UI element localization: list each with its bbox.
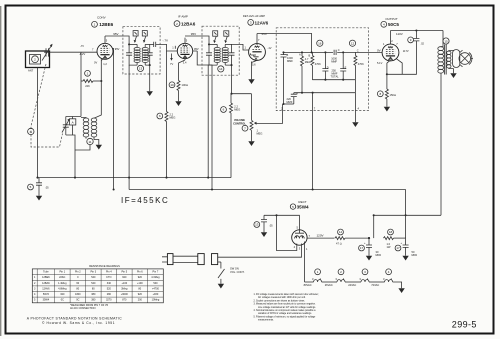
filter cap 17A 30MFD	[359, 237, 382, 260]
tube V2 12BA6	[176, 38, 197, 60]
interlock plug	[162, 254, 221, 265]
svg-text:380: 380	[91, 293, 96, 296]
svg-text:AC-DC CONNECTION: AC-DC CONNECTION	[70, 307, 96, 310]
svg-text:VOL. CONT.: VOL. CONT.	[230, 270, 245, 274]
T1 ref circle 13	[137, 65, 143, 71]
svg-text:Pin 5: Pin 5	[121, 271, 127, 274]
svg-text:12AV6: 12AV6	[42, 287, 50, 290]
V1 labels	[79, 32, 120, 66]
svg-text:Pin 2: Pin 2	[75, 271, 81, 274]
svg-text:95V: 95V	[113, 32, 118, 36]
T1 trimmer A2	[142, 31, 147, 43]
svg-text:MEG: MEG	[170, 115, 176, 119]
tube V5 35W4 rectifier	[292, 226, 311, 252]
V5 cathode output 120V	[307, 234, 335, 239]
board outline	[276, 28, 368, 111]
svg-text:3270: 3270	[106, 299, 112, 302]
svg-text:1W: 1W	[387, 245, 391, 249]
wire gang to V1 grid	[48, 51, 97, 53]
resistor A 4.7MEG	[299, 51, 311, 92]
on-off switch	[218, 262, 245, 289]
T1 primary bottom to B+ drop	[128, 65, 130, 189]
svg-text:Pin 1: Pin 1	[59, 271, 65, 274]
label V2 IF AMP 12BA6	[174, 14, 196, 26]
svg-text:B: B	[309, 53, 311, 57]
svg-text:55V: 55V	[262, 32, 267, 36]
T2 can outline	[202, 26, 239, 75]
capacitor B 1000MMF	[281, 51, 294, 104]
svg-text:MMF: MMF	[331, 60, 337, 64]
T2 primary coil	[214, 44, 220, 65]
wire board AF rail to V4 grid	[355, 51, 382, 53]
svg-text:-8.2V: -8.2V	[79, 52, 85, 56]
svg-text:26VAC: 26VAC	[325, 283, 333, 287]
svg-text:measurements.: measurements.	[258, 319, 274, 322]
T2 primary bottom to screen/B+ drop	[207, 65, 210, 178]
svg-text:.05: .05	[269, 224, 273, 228]
svg-text:100Ω: 100Ω	[182, 83, 188, 87]
svg-text:Pin 4: Pin 4	[106, 271, 112, 274]
svg-text:12BA6: 12BA6	[42, 282, 50, 285]
svg-text:299-5: 299-5	[452, 319, 477, 329]
svg-text:1,2: 1,2	[103, 62, 107, 66]
svg-text:18: 18	[389, 230, 393, 234]
T2 trimmer A2	[224, 31, 229, 43]
svg-text:540: 540	[91, 276, 96, 279]
capacitor C 1000MMF (series)	[331, 48, 340, 64]
svg-text:Pin 3: Pin 3	[90, 271, 96, 274]
grid return / AVC resistor R6	[157, 51, 176, 178]
svg-text:150Ω: 150Ω	[390, 93, 396, 97]
svg-text:12BE6: 12BE6	[99, 22, 113, 27]
V3 pin digits	[245, 38, 261, 50]
V3 plate wire into board	[257, 34, 312, 53]
wire antenna bottom down to AVC bus	[37, 68, 39, 178]
table grid	[32, 269, 163, 303]
svg-text:120V: 120V	[317, 234, 324, 238]
svg-text:+930: +930	[153, 293, 159, 296]
speaker ground	[450, 69, 456, 79]
svg-text:4. Nominal tolerance on compo: 4. Nominal tolerance on component values…	[254, 309, 317, 312]
wire antenna to tuning cap	[44, 51, 50, 53]
svg-text:12: 12	[351, 42, 355, 46]
T2 secondary bottom to volume chain	[230, 64, 251, 94]
filter cap 17B 50MFD	[395, 238, 417, 260]
svg-text:CONTROL: CONTROL	[233, 121, 246, 125]
svg-text:Pin 6: Pin 6	[137, 271, 143, 274]
T2 secondary cap	[225, 44, 234, 65]
svg-text:IF=455KC: IF=455KC	[121, 196, 169, 205]
T1 can outline	[123, 27, 160, 74]
svg-text:TOTAL: TOTAL	[331, 75, 340, 79]
svg-text:0V: 0V	[94, 61, 97, 65]
svg-text:470K: 470K	[315, 62, 321, 66]
svg-text:IF AMP: IF AMP	[178, 14, 188, 18]
svg-text:520: 520	[107, 287, 112, 290]
svg-text:DET-AVC-AF AMP: DET-AVC-AF AMP	[243, 14, 265, 18]
svg-text:RESISTANCE READINGS: RESISTANCE READINGS	[89, 264, 120, 268]
svg-text:10Meg: 10Meg	[152, 299, 160, 302]
volume pot ground	[248, 138, 254, 146]
svg-text:5.1V: 5.1V	[377, 61, 383, 65]
svg-text:117V: 117V	[403, 49, 409, 53]
capacitor E	[340, 51, 346, 79]
svg-text:22KΩ: 22KΩ	[59, 276, 65, 279]
tuning gang capacitor C1A	[42, 44, 53, 61]
V2 plate wire to T2	[185, 36, 209, 44]
scan edge left	[0, 6, 1, 336]
photofact credit	[27, 317, 122, 325]
svg-text:7V: 7V	[170, 62, 173, 66]
output transformer T3	[438, 31, 454, 216]
T2 secondary coil	[222, 44, 228, 65]
T2 secondary top to V3 diode	[232, 44, 249, 50]
svg-text:variation of ±15% in voltage a: variation of ±15% in voltage and resista…	[258, 312, 312, 315]
heater V1	[314, 280, 322, 282]
svg-text:MFD: MFD	[412, 253, 418, 257]
heater ref circles	[315, 269, 392, 275]
label V3 DET-AVC-AF AMP 12AV6	[243, 14, 269, 25]
board pin numbers	[281, 106, 360, 110]
T1 secondary cap	[145, 44, 153, 65]
svg-text:MFD: MFD	[376, 253, 382, 257]
svg-text:1. DC voltage measurements ta: 1. DC voltage measurements taken with va…	[254, 293, 320, 296]
svg-text:+4700: +4700	[152, 287, 160, 290]
wire cathode drop x=101.3	[95, 59, 103, 118]
T1 primary cap	[126, 43, 137, 65]
osc trimmer rails	[66, 117, 81, 178]
label V1 CONV 12BE6	[92, 15, 114, 27]
svg-text:-7V: -7V	[80, 44, 84, 48]
osc padder ref box A	[70, 117, 76, 136]
svg-text:5,6: 5,6	[252, 63, 256, 67]
svg-text:+9000: +9000	[121, 293, 129, 296]
label V4 OUTPUT 50C5	[381, 17, 400, 27]
heater V3	[361, 280, 369, 282]
heater voltage labels	[304, 283, 380, 287]
svg-text:CONV: CONV	[97, 15, 106, 19]
svg-text:+100: +100	[137, 282, 143, 285]
svg-text:E: E	[345, 65, 347, 69]
svg-text:0C: 0C	[61, 299, 64, 302]
resistor R14 47 ohm surge	[335, 229, 369, 246]
T1 trimmer A1	[133, 31, 138, 43]
svg-text:3Meg: 3Meg	[121, 287, 128, 290]
svg-text:95V: 95V	[115, 47, 120, 51]
B+ takeoff wires	[368, 190, 441, 240]
resistor R1 22K	[81, 70, 101, 88]
V2 cathode resistor R10 100 ohm	[169, 60, 188, 106]
oscillator coil L2	[81, 118, 99, 142]
T1 primary coil	[134, 44, 140, 65]
svg-text:280: 280	[107, 293, 112, 296]
svg-text:Tube: Tube	[43, 271, 49, 274]
float ref circle 12	[349, 40, 355, 46]
svg-text:200: 200	[138, 299, 143, 302]
svg-text:© Howard W. Sams & Co., Inc. 1: © Howard W. Sams & Co., Inc. 1951	[42, 321, 115, 325]
svg-text:4.8Meg: 4.8Meg	[58, 287, 67, 290]
heater pin marks	[312, 277, 393, 281]
plate wire V1 to T1	[105, 36, 129, 44]
svg-text:D: D	[327, 65, 329, 69]
heater V2	[337, 280, 345, 282]
grid test point symbol	[170, 54, 173, 67]
resistor C 470K	[354, 48, 364, 79]
V4 pin digits	[383, 39, 398, 46]
svg-text:+100: +100	[121, 282, 127, 285]
AVC resistor chain x=230	[221, 93, 241, 178]
filter resistor R18 1.0K	[384, 229, 406, 249]
svg-text:3. Measured values are from s: 3. Measured values are from socket pin t…	[254, 303, 317, 306]
T2 primary cap	[206, 43, 217, 65]
svg-text:.02: .02	[420, 42, 424, 46]
svg-text:MMF: MMF	[287, 59, 293, 63]
svg-text:540: 540	[91, 282, 96, 285]
speaker	[453, 50, 473, 68]
svg-text:AC voltages measured with 1000: AC voltages measured with 1000 ohm per v…	[258, 296, 306, 299]
svg-text:72VAC: 72VAC	[371, 283, 379, 287]
V2 screen wire to B+	[197, 51, 212, 190]
T2 trimmer A1	[213, 31, 218, 43]
svg-text:Line voltage maintained at 117: Line voltage maintained at 117 volts for…	[258, 306, 316, 309]
svg-text:16: 16	[318, 42, 322, 46]
svg-text:12BA6: 12BA6	[181, 21, 196, 26]
tube V3 12AV6	[249, 34, 266, 67]
svg-text:15: 15	[444, 39, 448, 43]
volume control label	[233, 118, 246, 125]
V2 labels	[183, 32, 199, 64]
V1 screen wire to B+ bus	[113, 49, 115, 191]
ground stub below board pin 4	[352, 111, 358, 127]
V4 cathode resistor R8 150 ohm	[377, 63, 395, 112]
svg-text:95V: 95V	[191, 32, 196, 36]
float ref circle 16	[317, 40, 323, 46]
AVC bypass cap C5 .05	[28, 178, 50, 201]
svg-text:95V: 95V	[194, 47, 199, 51]
svg-text:-.7V: -.7V	[163, 39, 169, 43]
svg-text:17: 17	[360, 246, 364, 250]
svg-text:12AV6: 12AV6	[255, 20, 269, 25]
svg-text:OUTPUT: OUTPUT	[385, 17, 398, 21]
board AF rail	[284, 51, 356, 53]
board bottom rail	[312, 79, 355, 93]
svg-text:17: 17	[396, 246, 400, 250]
filament ground	[398, 285, 404, 293]
V2 pin digits	[172, 39, 188, 50]
wire pot tap up to board pin 2	[282, 104, 284, 124]
svg-text:50C5: 50C5	[388, 22, 399, 27]
tube V1 12BE6	[97, 36, 113, 61]
board B+ feed down	[312, 93, 314, 190]
capacitor 9 .02 plate-cathode	[387, 29, 425, 74]
wire grid bus drop left x=81	[80, 52, 82, 116]
svg-text:Pin 7: Pin 7	[153, 271, 159, 274]
svg-text:2. Socket connections are sho: 2. Socket connections are shown as botto…	[254, 299, 306, 302]
svg-text:MEG: MEG	[234, 108, 240, 112]
dashed gang line	[31, 64, 63, 147]
svg-text:RECT: RECT	[298, 200, 306, 204]
svg-text:5. Filament voltage of minimu: 5. Filament voltage of minimum, no signa…	[254, 315, 317, 318]
svg-text:540: 540	[153, 282, 158, 285]
svg-text:-1V: -1V	[268, 46, 272, 50]
svg-text:340: 340	[107, 282, 112, 285]
svg-text:920: 920	[138, 276, 143, 279]
svg-text:C: C	[338, 48, 340, 52]
B+ bus	[129, 188, 406, 190]
oscillator trimmer C1B	[62, 117, 70, 136]
svg-text:80VAC: 80VAC	[304, 283, 312, 287]
svg-text:MEG: MEG	[257, 131, 263, 135]
capacitor D .05	[322, 51, 339, 79]
svg-text:A: A	[72, 121, 74, 125]
table text	[34, 271, 160, 302]
T1 secondary bottom to ground	[147, 64, 153, 96]
svg-text:22K: 22K	[85, 84, 90, 88]
label V5 RECT 35W4	[290, 200, 309, 210]
V5 heater pin to filament string	[304, 242, 306, 283]
svg-text:110V: 110V	[396, 32, 403, 36]
svg-text:4.3Meg: 4.3Meg	[151, 276, 160, 279]
svg-text:470K: 470K	[358, 62, 364, 66]
svg-text:10: 10	[170, 83, 174, 87]
svg-text:12BE6: 12BE6	[42, 276, 50, 279]
V4 plate wire up and right to OT	[391, 30, 444, 32]
svg-text:47 Ω: 47 Ω	[336, 242, 342, 246]
T2 ref circle 14	[218, 66, 224, 72]
resistor B 470K	[309, 52, 322, 79]
board common rail	[294, 92, 356, 111]
svg-text:C: C	[357, 48, 359, 52]
svg-text:A: A	[299, 53, 301, 57]
svg-text:A: A	[296, 92, 298, 96]
svg-text:920: 920	[122, 276, 127, 279]
svg-text:MEG: MEG	[305, 60, 311, 64]
wire cap A / cap B to pin 2	[283, 103, 294, 105]
svg-text:320: 320	[60, 293, 65, 296]
svg-text:ANT: ANT	[28, 69, 34, 73]
capacitor A 220MMF	[287, 92, 299, 105]
volume control pot R7	[242, 94, 283, 138]
ground under osc coil	[96, 142, 102, 150]
wire osc section to AVC bus	[75, 137, 90, 150]
svg-text:380: 380	[91, 299, 96, 302]
OT ref circle 15	[443, 38, 449, 44]
line bypass cap 13 .05	[254, 215, 273, 237]
grid coupling cap T1 to V2	[150, 42, 176, 51]
svg-text:13: 13	[255, 223, 259, 227]
svg-text:0C: 0C	[76, 299, 79, 302]
V5 plate feed from line	[264, 215, 299, 230]
svg-text:50C5: 50C5	[43, 293, 50, 296]
osc coil ref circle 11	[87, 138, 93, 144]
svg-text:35W4: 35W4	[297, 205, 309, 210]
gang symbol circle	[28, 128, 34, 134]
V5 pin 4 to plate line	[275, 214, 296, 250]
svg-text:1.4Meg: 1.4Meg	[58, 282, 67, 285]
svg-text:14: 14	[219, 67, 223, 71]
V3 cathode ground	[248, 62, 254, 85]
svg-text:13: 13	[139, 67, 143, 71]
svg-text:35W4: 35W4	[43, 299, 50, 302]
antenna loop L1	[26, 51, 50, 73]
svg-text:4300: 4300	[75, 293, 81, 296]
T1 secondary coil	[142, 44, 148, 65]
svg-text:870: 870	[122, 299, 127, 302]
svg-text:14: 14	[339, 230, 343, 234]
V5 pin 3 to interlock	[218, 244, 302, 258]
svg-text:24VAC: 24VAC	[348, 283, 356, 287]
svg-text:920: 920	[138, 293, 143, 296]
svg-text:11: 11	[88, 140, 91, 144]
svg-text:CTO: CTO	[106, 276, 111, 279]
V1 pin digits	[92, 39, 108, 52]
V4 labels	[377, 32, 409, 65]
AVC bus	[36, 177, 231, 179]
svg-text:0V: 0V	[377, 48, 381, 52]
svg-text:.05: .05	[45, 186, 49, 190]
heater V4	[385, 280, 393, 282]
table footnote	[70, 304, 109, 310]
tube V4 50C5	[382, 31, 402, 75]
